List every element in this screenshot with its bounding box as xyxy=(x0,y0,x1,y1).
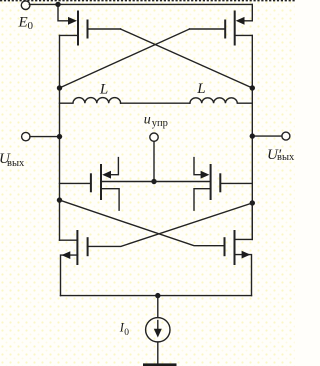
wire: inductor centre link xyxy=(121,102,190,104)
junction: tail node xyxy=(155,293,160,298)
wire: left rail xyxy=(59,35,61,240)
transistor VT1 channel bar xyxy=(77,12,79,45)
varactor VT4 gate bar xyxy=(219,174,221,191)
wire: left node to VT6 gate (diagonal) xyxy=(60,200,225,246)
varactor VT3 gate bar xyxy=(90,174,92,191)
inductor L2 xyxy=(190,98,252,103)
junction: left cross node xyxy=(57,197,62,202)
transistor VT5 channel bar xyxy=(76,231,78,264)
wire: top supply rail xyxy=(29,3,252,5)
transistor VT1 gate bar xyxy=(87,21,89,38)
transistor VT2 source arrow xyxy=(236,17,245,25)
terminal E0 xyxy=(21,1,30,10)
varactor VT4 channel bar xyxy=(210,165,212,199)
wire: right output tap xyxy=(252,135,282,137)
svg-text:0: 0 xyxy=(124,328,129,338)
svg-text:L: L xyxy=(196,81,205,97)
wire: left output tap xyxy=(30,136,60,138)
svg-text:E: E xyxy=(18,15,28,31)
transistor VT5 source lead xyxy=(61,255,78,296)
junction: right output node xyxy=(250,133,255,138)
wire: current source to ground xyxy=(157,342,159,364)
junction: top rail to VT1 source stub xyxy=(55,2,60,7)
svg-text:вых: вых xyxy=(7,158,25,169)
wire: VT4 gate lead to right rail xyxy=(220,182,252,184)
transistor VT5 gate bar xyxy=(87,238,89,255)
varactor VT4 arrow xyxy=(201,171,210,179)
junction: right tank node B xyxy=(250,85,255,90)
transistor VT5 drain lead xyxy=(60,239,78,241)
junction: control node xyxy=(151,179,156,184)
transistor VT2 gate bar xyxy=(224,21,226,38)
wire: right node to VT5 gate (diagonal) xyxy=(88,203,253,246)
wire: VT4 drain stub xyxy=(194,158,201,175)
transistor VT6 gate bar xyxy=(224,238,226,255)
wire: VT2 gate to left tank node (diagonal) xyxy=(60,29,190,88)
wire: VT4 source stub xyxy=(194,189,211,211)
transistor VT6 source arrow xyxy=(242,251,251,259)
transistor VT6 source lead xyxy=(235,255,252,296)
wire: varactor bulk link xyxy=(101,181,211,183)
ground xyxy=(143,363,177,366)
inductor L1 xyxy=(60,98,121,104)
wire: right rail xyxy=(251,35,253,239)
svg-text:вых: вых xyxy=(277,152,295,163)
wire: VT1 gate to right tank node (diagonal) xyxy=(121,29,253,88)
svg-text:0: 0 xyxy=(28,20,34,32)
terminal u_upr (control input) xyxy=(150,133,158,141)
svg-text:u: u xyxy=(144,113,151,128)
transistor VT6 channel bar xyxy=(234,231,236,264)
transistor VT2 drain lead xyxy=(235,34,253,36)
transistor VT5 source arrow xyxy=(62,251,71,259)
terminal U'_vyh (right output) xyxy=(282,132,290,140)
wire: VT2 source stub xyxy=(244,4,252,20)
varactor VT3 arrow xyxy=(102,171,111,179)
terminal U_vyh (left output) xyxy=(22,132,30,140)
wire: VT2 gate lead xyxy=(190,28,226,30)
wire: VT1 gate lead xyxy=(88,28,121,30)
wire: VT3 source stub xyxy=(101,189,119,211)
transistor VT2 channel bar xyxy=(234,12,236,45)
wire: VT3 gate lead to left rail xyxy=(60,182,91,184)
transistor VT6 drain lead xyxy=(235,202,253,240)
current source I0 xyxy=(157,296,159,318)
junction: right cross node xyxy=(250,200,255,205)
transistor VT1 source arrow xyxy=(68,17,77,25)
wire: control feed xyxy=(153,141,155,181)
svg-text:упр: упр xyxy=(152,118,168,129)
wire: bottom rail xyxy=(61,295,252,297)
wire: VT3 drain stub xyxy=(111,158,119,175)
svg-text:L: L xyxy=(99,82,108,98)
wire: VT1 source stub xyxy=(58,4,68,20)
junction: left tank node A xyxy=(57,85,62,90)
transistor VT1 drain lead xyxy=(60,34,79,36)
varactor VT3 channel bar xyxy=(100,165,102,199)
junction: left output node xyxy=(57,134,62,139)
